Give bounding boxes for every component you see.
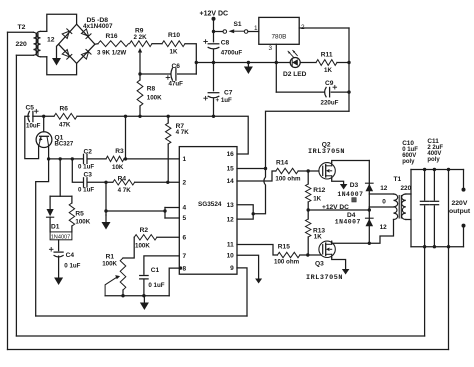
svg-text:100 ohm: 100 ohm [274, 258, 300, 265]
svg-text:780B: 780B [272, 33, 287, 40]
svg-text:1N4007: 1N4007 [337, 191, 363, 198]
svg-text:C6: C6 [172, 63, 181, 70]
svg-text:220: 220 [16, 41, 28, 48]
svg-text:10K: 10K [112, 164, 124, 171]
svg-text:IRL3705N: IRL3705N [306, 274, 343, 282]
svg-text:1: 1 [254, 25, 258, 32]
svg-text:1N4007: 1N4007 [335, 218, 361, 225]
svg-text:220: 220 [401, 185, 412, 192]
svg-text:poly: poly [427, 157, 440, 163]
svg-text:R6: R6 [60, 105, 69, 112]
svg-text:+12V DC: +12V DC [200, 11, 229, 18]
svg-text:+ 1uF: + 1uF [216, 97, 233, 104]
svg-text:Q1: Q1 [55, 134, 64, 141]
svg-text:0 1uF: 0 1uF [78, 186, 94, 193]
svg-text:T2: T2 [18, 24, 26, 31]
svg-text:12: 12 [47, 36, 55, 43]
svg-text:1K: 1K [314, 234, 322, 241]
svg-text:220uF: 220uF [321, 99, 339, 106]
svg-text:1K: 1K [313, 195, 321, 202]
svg-text:R12: R12 [313, 187, 325, 194]
svg-text:R16: R16 [106, 33, 118, 40]
svg-text:R11: R11 [321, 51, 333, 58]
svg-text:0 1uF: 0 1uF [78, 164, 94, 171]
svg-text:D1: D1 [51, 223, 60, 230]
svg-text:12: 12 [380, 185, 388, 192]
svg-text:220V: 220V [452, 200, 468, 207]
svg-text:14: 14 [227, 178, 235, 185]
svg-text:100K: 100K [102, 260, 117, 267]
svg-text:C9: C9 [325, 80, 334, 87]
svg-text:C8: C8 [221, 40, 230, 47]
svg-text:47K: 47K [59, 122, 71, 129]
svg-text:SG3524: SG3524 [198, 201, 222, 208]
svg-text:1K: 1K [170, 48, 178, 55]
svg-text:IRL3705N: IRL3705N [308, 148, 345, 156]
svg-text:12: 12 [380, 224, 388, 231]
svg-text:R10: R10 [168, 32, 180, 39]
svg-text:4 7K: 4 7K [118, 187, 132, 194]
svg-text:BC327: BC327 [55, 141, 74, 147]
svg-text:C1: C1 [151, 267, 160, 274]
svg-text:100 ohm: 100 ohm [275, 175, 301, 182]
svg-text:2 2K: 2 2K [134, 34, 148, 41]
svg-text:3: 3 [269, 45, 273, 52]
svg-text:10: 10 [227, 252, 235, 259]
svg-text:2: 2 [301, 24, 305, 31]
svg-text:C7: C7 [224, 89, 233, 96]
svg-text:4x1N4007: 4x1N4007 [83, 23, 113, 30]
svg-text:1N4007: 1N4007 [51, 234, 71, 240]
svg-text:1: 1 [183, 156, 187, 163]
svg-text:100K: 100K [135, 243, 150, 250]
svg-text:0 1uF: 0 1uF [64, 263, 80, 270]
svg-text:11: 11 [227, 242, 234, 249]
svg-text:15: 15 [227, 166, 235, 173]
svg-text:T1: T1 [394, 176, 402, 183]
svg-text:1K: 1K [324, 67, 332, 74]
svg-text:4: 4 [183, 205, 187, 212]
svg-text:8: 8 [183, 265, 187, 272]
svg-text:R4: R4 [118, 175, 127, 182]
svg-text:R3: R3 [115, 148, 124, 155]
svg-text:D2 LED: D2 LED [283, 71, 307, 78]
svg-text:2: 2 [183, 180, 187, 187]
svg-text:R14: R14 [276, 160, 288, 167]
svg-text:C10: C10 [402, 140, 414, 147]
svg-text:5: 5 [183, 215, 187, 222]
svg-text:output: output [449, 208, 471, 215]
svg-text:7: 7 [183, 253, 187, 260]
svg-text:C3: C3 [84, 172, 93, 179]
svg-text:D3: D3 [350, 182, 359, 189]
svg-text:6: 6 [183, 235, 187, 242]
svg-text:C11: C11 [427, 138, 439, 145]
svg-text:0: 0 [382, 198, 386, 205]
svg-text:47uF: 47uF [169, 81, 184, 88]
svg-text:R2: R2 [140, 227, 149, 234]
svg-text:10uF: 10uF [26, 123, 41, 130]
svg-text:poly: poly [402, 159, 415, 165]
svg-text:Q3: Q3 [315, 260, 324, 267]
svg-text:+12V DC: +12V DC [322, 204, 349, 211]
svg-text:9: 9 [230, 265, 234, 272]
svg-text:4 7K: 4 7K [176, 129, 190, 136]
svg-text:C4: C4 [66, 252, 75, 259]
svg-text:0 1uF: 0 1uF [148, 282, 164, 289]
svg-text:S1: S1 [234, 21, 242, 28]
svg-text:100K: 100K [147, 95, 162, 102]
svg-text:3 9K 1/2W: 3 9K 1/2W [97, 49, 126, 56]
svg-text:16: 16 [227, 151, 235, 158]
svg-text:12: 12 [227, 216, 235, 223]
svg-text:C5: C5 [26, 104, 35, 111]
svg-text:13: 13 [227, 202, 235, 209]
svg-text:R1: R1 [106, 253, 115, 260]
svg-text:R8: R8 [147, 85, 156, 92]
svg-text:4700uF: 4700uF [221, 49, 243, 56]
svg-text:R15: R15 [278, 243, 290, 250]
svg-text:R5: R5 [75, 210, 84, 217]
svg-text:100K: 100K [75, 219, 90, 226]
svg-text:C2: C2 [84, 149, 93, 156]
